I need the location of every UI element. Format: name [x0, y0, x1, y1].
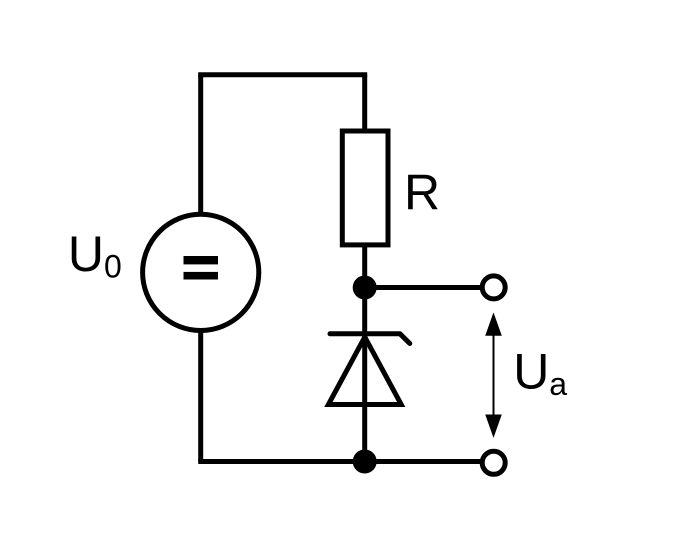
wire left vertical upper	[198, 75, 203, 215]
wire right vertical from top wire to resistor	[362, 75, 367, 131]
svg-text:U0: U0	[68, 226, 122, 285]
terminal bottom output	[482, 451, 505, 474]
wire node to top terminal	[365, 285, 482, 290]
arrow Ua shaft	[493, 330, 495, 420]
arrow Ua head top	[485, 312, 502, 335]
node junction dot upper	[353, 276, 377, 300]
zener diode triangle	[328, 337, 401, 405]
svg-text:Ua: Ua	[513, 344, 567, 403]
zener diode cathode bar with hook	[330, 334, 410, 344]
arrow Ua head bottom	[485, 415, 502, 438]
wire resistor bottom to lower node	[362, 245, 367, 462]
terminal top output	[482, 276, 505, 299]
voltage source = symbol bar 1	[184, 256, 219, 264]
voltage source = symbol bar 2	[184, 272, 219, 280]
wire top horizontal	[201, 75, 365, 78]
svg-text:R: R	[404, 164, 440, 220]
voltage source U0 circle	[143, 214, 259, 330]
node junction dot lower	[353, 450, 377, 474]
wire bottom horizontal	[198, 459, 482, 464]
wire left vertical lower	[198, 330, 203, 462]
resistor R	[342, 131, 388, 245]
